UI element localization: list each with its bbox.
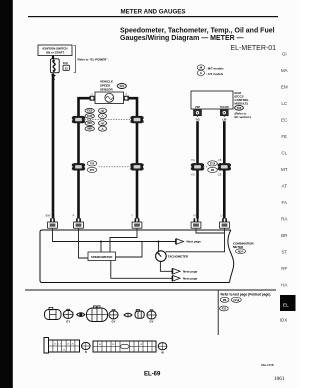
svg-text:F210: F210	[210, 163, 216, 165]
svg-text:M67: M67	[87, 123, 92, 125]
svg-text:B: B	[85, 351, 87, 354]
svg-text:Next page: Next page	[183, 270, 198, 274]
svg-text:METER AND GAUGES: METER AND GAUGES	[120, 8, 185, 15]
svg-text:ON or START: ON or START	[46, 51, 64, 55]
svg-text:EC section.): EC section.)	[235, 115, 252, 119]
svg-text:ST: ST	[281, 250, 287, 255]
svg-text:F24: F24	[120, 85, 125, 88]
svg-text:RF: RF	[281, 266, 287, 271]
svg-text:A: A	[101, 114, 103, 118]
svg-text:GY: GY	[66, 319, 70, 323]
svg-text:TACHO: TACHO	[220, 105, 229, 109]
svg-text:A: A	[101, 127, 103, 131]
svg-text:VSP: VSP	[195, 105, 200, 109]
svg-text:10A: 10A	[63, 61, 68, 65]
svg-text:SPEEDOMETER: SPEEDOMETER	[91, 255, 112, 259]
svg-text:Next page: Next page	[187, 240, 202, 244]
svg-text:M8: M8	[223, 299, 227, 302]
svg-text:EM: EM	[281, 85, 288, 90]
svg-text:AT: AT	[282, 184, 288, 189]
svg-text:M68: M68	[87, 129, 92, 131]
svg-text:GY: GY	[111, 320, 115, 324]
svg-text:BR: BR	[281, 233, 288, 238]
svg-text:L/B: L/B	[218, 174, 222, 177]
svg-text:MEL156B: MEL156B	[261, 363, 274, 367]
svg-text:F210: F210	[233, 299, 239, 302]
svg-text:MA: MA	[281, 68, 289, 73]
svg-text:EL-METER-01: EL-METER-01	[230, 45, 276, 52]
svg-text:L/B: L/B	[221, 214, 225, 217]
svg-text:Y/G: Y/G	[191, 174, 195, 177]
svg-text:GI: GI	[282, 52, 287, 57]
svg-text:Y/G: Y/G	[195, 119, 199, 122]
svg-text:CL: CL	[281, 151, 287, 156]
svg-text:Y/G: Y/G	[193, 214, 197, 217]
svg-text:TACHOMETER: TACHOMETER	[168, 254, 189, 258]
svg-text:F22: F22	[222, 308, 227, 311]
svg-text:MODULE): MODULE)	[235, 101, 249, 105]
svg-text:1061: 1061	[274, 376, 285, 382]
svg-text:M75: M75	[90, 170, 95, 172]
svg-text:METER: METER	[233, 245, 244, 249]
svg-text:Refer to last page (Foldout pa: Refer to last page (Foldout page).	[221, 292, 272, 296]
svg-text:F210: F210	[87, 111, 93, 113]
svg-text:FA: FA	[281, 200, 288, 205]
svg-text:Gauges/Wiring Diagram — METER: Gauges/Wiring Diagram — METER —	[120, 35, 244, 42]
svg-text:: A/T models: : A/T models	[206, 72, 224, 76]
svg-text:B/W: B/W	[46, 214, 51, 217]
svg-text:Next page: Next page	[183, 277, 198, 281]
svg-text:Speedometer, Tachometer, Temp.: Speedometer, Tachometer, Temp., Oil and …	[120, 27, 275, 34]
svg-text:HA: HA	[281, 283, 288, 288]
svg-text:12: 12	[65, 66, 69, 70]
svg-text:MT: MT	[281, 167, 288, 172]
svg-text:FE: FE	[281, 134, 287, 139]
svg-text:M: M	[200, 66, 203, 70]
svg-text:EL: EL	[283, 302, 289, 307]
svg-text:LC: LC	[281, 101, 288, 106]
svg-text:IDX: IDX	[280, 317, 288, 322]
svg-text:L/B: L/B	[222, 119, 226, 122]
svg-text:RA: RA	[281, 217, 288, 222]
svg-text:Refer to “EL-POWER”.: Refer to “EL-POWER”.	[78, 58, 109, 62]
svg-text:: M/T models: : M/T models	[206, 66, 224, 70]
svg-text:M24: M24	[238, 250, 243, 253]
svg-text:EC: EC	[281, 118, 288, 123]
svg-text:GY: GY	[149, 320, 153, 324]
svg-text:F28: F28	[237, 107, 242, 110]
svg-text:Y/G: Y/G	[191, 159, 195, 162]
svg-text:EL-69: EL-69	[144, 372, 161, 378]
svg-text:F215: F215	[87, 116, 93, 118]
svg-text:SENSOR: SENSOR	[100, 88, 114, 92]
svg-text:L/B: L/B	[218, 159, 222, 162]
